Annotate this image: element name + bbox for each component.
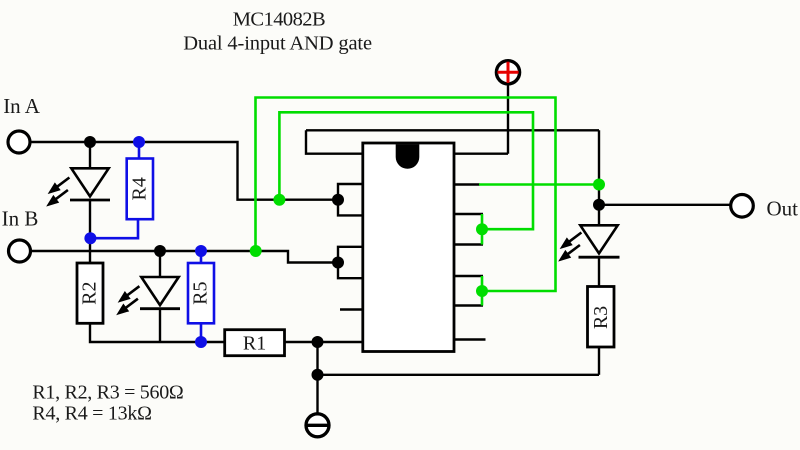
svg-text:In A: In A xyxy=(3,94,41,118)
svg-text:R2: R2 xyxy=(79,282,101,305)
resistor R5 xyxy=(188,263,214,323)
node: junction dots black xyxy=(84,136,605,381)
wire: output to Out terminal xyxy=(599,204,732,206)
wire: LED1 anode branch xyxy=(89,142,91,168)
LED D3 xyxy=(560,225,620,260)
wire: NC stub left pin 5 xyxy=(340,308,363,310)
wire: blue R4 top xyxy=(138,142,141,159)
wire: LED3 cathode to R3 xyxy=(598,257,600,286)
resistor R4 xyxy=(127,159,153,220)
LED D1 xyxy=(48,168,111,205)
wire: blue R5 top xyxy=(200,251,203,263)
terminal In B xyxy=(9,240,31,262)
terminal In A xyxy=(8,131,30,153)
svg-text:R1, R2, R3 = 560Ω: R1, R2, R3 = 560Ω xyxy=(32,382,183,404)
svg-text:Out: Out xyxy=(767,197,799,221)
wire: blue R5 bottom xyxy=(200,323,203,342)
svg-text:R1: R1 xyxy=(243,333,266,355)
node: junction dots green xyxy=(250,179,605,298)
svg-text:In B: In B xyxy=(2,207,39,231)
node: junction dots blue xyxy=(84,136,207,348)
wire: LED2 cathode to bottom rail xyxy=(159,309,161,342)
power terminal V+ xyxy=(496,61,519,84)
resistor R2 xyxy=(77,263,103,323)
LED D2 xyxy=(118,277,181,314)
wire: R1 right to IC pin 7 xyxy=(285,341,363,343)
wire: In A to gate1 inputs xyxy=(30,142,338,200)
wire: output node vertical xyxy=(598,130,600,205)
wire: LED1 cathode down through In B to R2 xyxy=(89,200,91,263)
ground terminal V- xyxy=(306,414,329,437)
wire: output to LED3 xyxy=(598,205,600,226)
wire: IC pins 1-2 tie bracket (left) xyxy=(338,184,363,215)
terminal Out xyxy=(731,195,754,218)
resistor R1 xyxy=(225,330,285,356)
wire: ground drop xyxy=(316,342,318,413)
wire: R2 bottom to R1 left xyxy=(90,323,225,342)
wire: IC pins 3-4 tie bracket (left) xyxy=(338,247,363,278)
svg-text:Dual 4-input AND gate: Dual 4-input AND gate xyxy=(183,33,372,55)
resistor R3 xyxy=(588,287,615,348)
wire: R3 bottom to return rail xyxy=(598,347,600,375)
wire: blue R4 bottom to LED1 cathode xyxy=(90,219,138,238)
svg-text:R3: R3 xyxy=(590,306,612,329)
svg-text:R4: R4 xyxy=(129,177,151,200)
wire: green feedback net gate1 xyxy=(279,112,533,244)
IC pin-1 notch xyxy=(396,144,420,169)
op-amp/IC U1 MC14082B body xyxy=(363,143,454,352)
wire: VDD rail from supply xyxy=(306,86,599,154)
wire: In B to gate2 inputs xyxy=(31,251,339,263)
svg-text:R4, R4 = 13kΩ: R4, R4 = 13kΩ xyxy=(32,403,151,425)
wire: bottom return rail xyxy=(318,374,600,376)
svg-text:MC14082B: MC14082B xyxy=(233,8,325,30)
svg-text:R5: R5 xyxy=(190,282,212,305)
wire: green gate1 output to Out node xyxy=(479,183,599,186)
wire: LED2 anode branch xyxy=(159,251,161,277)
wire: green feedback net gate2 xyxy=(256,98,556,306)
IC right pin stubs xyxy=(454,185,486,340)
